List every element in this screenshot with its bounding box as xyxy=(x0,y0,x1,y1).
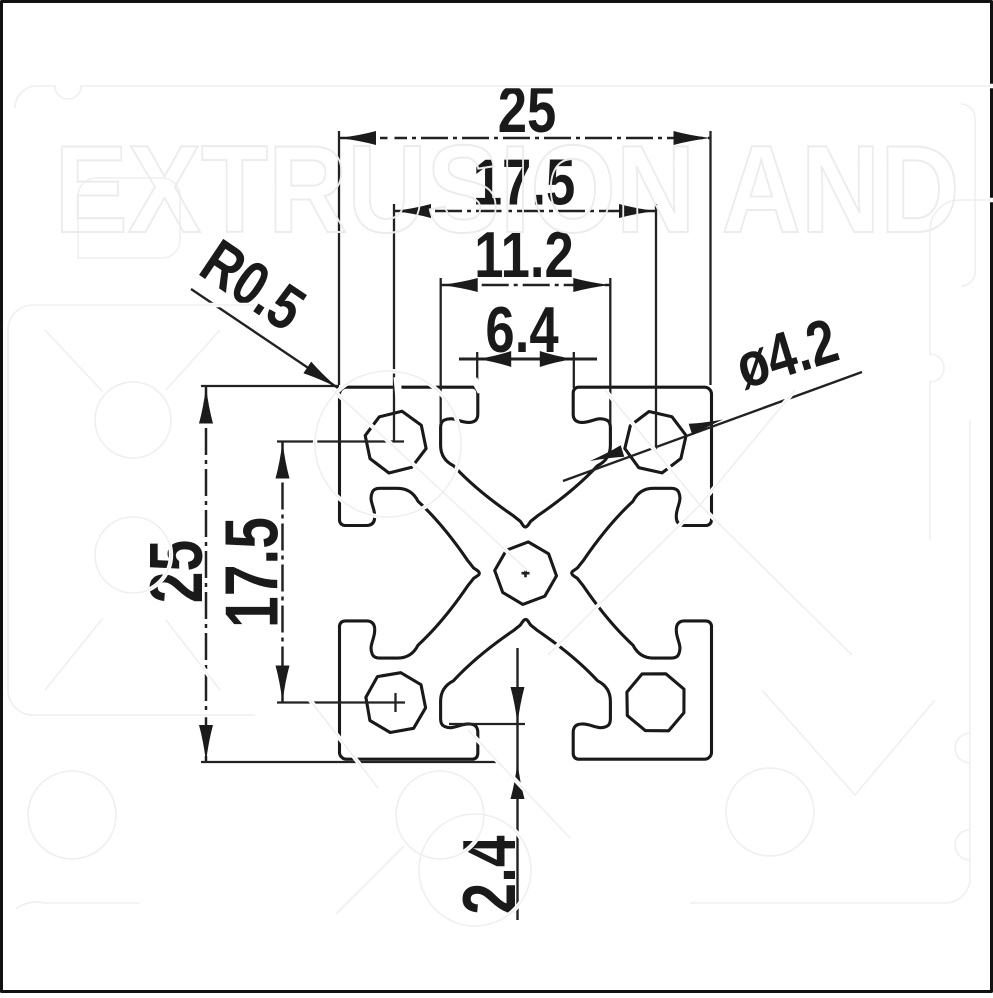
leader text R0.5 xyxy=(188,226,317,344)
dim 17.5 left: dimension line xyxy=(281,442,284,703)
svg-text:6.4: 6.4 xyxy=(485,293,558,367)
leader R0.5 xyxy=(191,289,338,388)
dim 17.5 left: extension lines xyxy=(277,442,405,703)
dim 2.4 bottom: dimension vertical line xyxy=(516,648,518,920)
dim text 2.4 bottom xyxy=(449,835,532,914)
corner hole bottom-right xyxy=(627,674,684,731)
dim 17.5 top: extension lines xyxy=(394,204,656,450)
dim 6.4 top: dimension line with tails xyxy=(459,358,597,361)
dim text 6.4 top xyxy=(485,293,558,367)
dim 25 top: extension lines xyxy=(339,131,711,385)
dim 2.4 bottom: reference line xyxy=(449,723,525,725)
extrusion profile outline xyxy=(340,387,712,759)
svg-text:25: 25 xyxy=(136,540,219,603)
dim text 17.5 left xyxy=(211,517,294,628)
dim text 17.5 top xyxy=(473,145,575,219)
dim 17.5 top: dimension line xyxy=(394,210,656,213)
dim 25 left: extension lines xyxy=(201,386,498,762)
dim text 25 top xyxy=(498,73,557,147)
dim 11.2 top: extension lines xyxy=(441,278,611,424)
dim text 11.2 top xyxy=(474,218,574,292)
leader dia 4.2 xyxy=(563,372,862,481)
center hole xyxy=(495,542,557,605)
center tick bottom-left hole xyxy=(394,693,396,712)
dim 25 top: dimension line xyxy=(339,137,711,140)
center hole center mark xyxy=(522,569,530,577)
corner hole bottom-left xyxy=(366,673,426,733)
svg-text:17.5: 17.5 xyxy=(211,517,294,628)
dim 6.4 top: extension lines xyxy=(477,352,574,388)
dim text 25 left xyxy=(136,540,219,603)
leader text dia 4.2 xyxy=(728,305,846,402)
dim 11.2 top: dimension line xyxy=(441,284,611,287)
corner hole top-right xyxy=(625,412,686,473)
dim 25 left: dimension line xyxy=(205,387,208,762)
svg-text:EXTRUSION AND: EXTRUSION AND xyxy=(55,121,960,259)
corner hole top-left xyxy=(365,411,426,473)
